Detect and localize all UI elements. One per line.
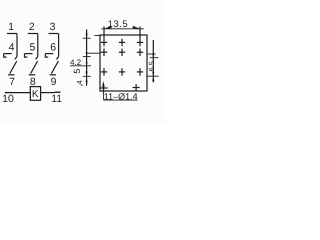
svg-text:11: 11: [51, 93, 62, 105]
pin hole A2: [119, 39, 125, 47]
extension line from pin row B to right dimension: [147, 53, 156, 55]
coil pin 11 terminal tick: [55, 91, 61, 93]
pole 3: pin 6 terminal tick: [45, 53, 53, 55]
coil pin 11 label: [51, 93, 62, 105]
pin hole B3: [137, 49, 143, 57]
right dimension tick y57.7: [150, 57, 158, 59]
svg-text:5: 5: [29, 41, 35, 53]
pole 3: pin 6 contact hook: [45, 54, 48, 58]
left dimension long tick / text underline y65.8: [70, 65, 91, 67]
pole 3: pin 6 label: [50, 41, 56, 53]
pole 3: contact flick at wire bottom: [56, 57, 58, 60]
pole 1: pin 4 label: [9, 41, 15, 53]
svg-text:4: 4: [75, 80, 84, 84]
dimension 13.5 extension line right: [139, 27, 141, 39]
pin hole A1: [101, 39, 107, 47]
leader arrowhead to coil pin hole D1: [102, 81, 105, 87]
dimension 13.5 line: [101, 28, 144, 30]
pin hole B2: [119, 49, 125, 57]
pole 3: movable contact arm: [51, 61, 58, 74]
pole 2: fixed contact vertical wire from pin 2: [37, 34, 39, 57]
left dimension arrow above y74.6: [86, 72, 88, 77]
leader shaft: [103, 87, 105, 100]
dimension 13.5 extension line left: [103, 27, 105, 39]
dimension text 6.5 (rotated): [147, 61, 156, 71]
wire coil to pin11: [41, 92, 55, 94]
pole 1: pin 1 label: [8, 21, 14, 33]
left dimension arrow above y38: [86, 34, 88, 38]
svg-text:1: 1: [8, 21, 14, 33]
pole 3: fixed contact vertical wire from pin 3: [58, 34, 60, 57]
right dimension arrow below y76.2: [152, 76, 154, 81]
pole 3: pin 9 terminal tick: [50, 74, 57, 76]
pole 2: pin 5 label: [29, 41, 35, 53]
pin hole A3: [137, 39, 143, 47]
svg-text:6.5: 6.5: [147, 61, 156, 71]
pole 1: pin 7 label: [9, 76, 15, 88]
pole 2: pin 5 terminal tick: [25, 53, 33, 55]
pin hole C2: [119, 68, 125, 76]
hole count text 11-Ø1.4: [104, 91, 138, 101]
pole 1: contact flick at wire bottom: [15, 57, 17, 60]
pole 2: pin 8 label: [30, 76, 36, 88]
svg-text:13.5: 13.5: [108, 19, 129, 30]
coil pin 10 label: [2, 93, 14, 105]
svg-text:K: K: [32, 89, 39, 100]
left dimension arrow above y56.6: [86, 52, 88, 56]
leader shelf / text underline: [104, 99, 138, 101]
dimension text 4.2 (rotated): [81, 85, 82, 86]
right dimension arrow above y57.7: [152, 53, 154, 57]
dimension text 4.2 (horizontal): [70, 58, 82, 67]
extension line from body top edge to left dimension: [94, 35, 100, 37]
pole 3: pin 9 label: [51, 76, 57, 88]
extension line from pin row B to left dimension: [87, 52, 101, 54]
left dimension line: [86, 29, 88, 85]
svg-text:7: 7: [9, 76, 15, 88]
pole 1: fixed contact vertical wire from pin 1: [16, 34, 18, 57]
left dimension tick y74.6: [83, 75, 91, 77]
pole 2: movable contact arm: [31, 61, 38, 74]
left dimension tick y56.6: [83, 56, 91, 58]
right dimension arrow above y76.2: [152, 72, 154, 76]
relay body outline (bottom view): [100, 35, 147, 91]
left dimension tick y38: [83, 37, 91, 39]
svg-text:6: 6: [50, 41, 56, 53]
pole 2: contact flick at wire bottom: [36, 57, 38, 60]
right dimension tick y76.2: [147, 75, 158, 77]
pole 2: pin 2 terminal tick: [28, 33, 38, 35]
right dimension line: [152, 40, 154, 83]
svg-text:4: 4: [9, 41, 15, 53]
pole 2: pin 2 label: [29, 21, 35, 33]
left dimension arrow above y65.8: [86, 62, 88, 66]
svg-text:10: 10: [2, 93, 14, 105]
pole 3: pin 3 label: [50, 21, 56, 33]
pole 1: pin 7 terminal tick: [8, 74, 15, 76]
pin hole C1: [101, 68, 107, 76]
wire pin10 to coil: [10, 92, 31, 94]
dimension 13.5 left arrowhead: [104, 26, 112, 29]
pole 1: pin 4 contact hook: [4, 54, 7, 58]
coil pin 10 terminal tick: [5, 92, 10, 94]
svg-text:11–Ø1.4: 11–Ø1.4: [104, 91, 138, 101]
coil pin hole D1: [99, 84, 107, 92]
pole 1: pin 1 terminal tick: [7, 33, 17, 35]
dimension 13.5 right arrowhead: [133, 26, 141, 29]
pole 2: pin 8 terminal tick: [29, 74, 36, 76]
left dimension arrow at bottom end: [86, 81, 88, 86]
pole 1: movable contact arm: [10, 61, 17, 74]
dimension text 5 (rotated): [72, 69, 82, 74]
coil K box: [30, 87, 40, 101]
pole 2: pin 5 contact hook: [25, 54, 28, 58]
dimension 13.5 text: [108, 19, 129, 30]
svg-text:3: 3: [50, 21, 56, 33]
pole 3: pin 3 terminal tick: [49, 33, 59, 35]
svg-text:5: 5: [72, 69, 82, 74]
coil pin hole D2: [133, 84, 140, 91]
svg-text:9: 9: [51, 76, 57, 88]
pin hole C3: [137, 68, 143, 76]
pole 1: pin 4 terminal tick: [4, 53, 12, 55]
svg-text:2: 2: [29, 21, 35, 33]
pin hole B1: [101, 49, 107, 57]
coil K label: [32, 89, 39, 100]
